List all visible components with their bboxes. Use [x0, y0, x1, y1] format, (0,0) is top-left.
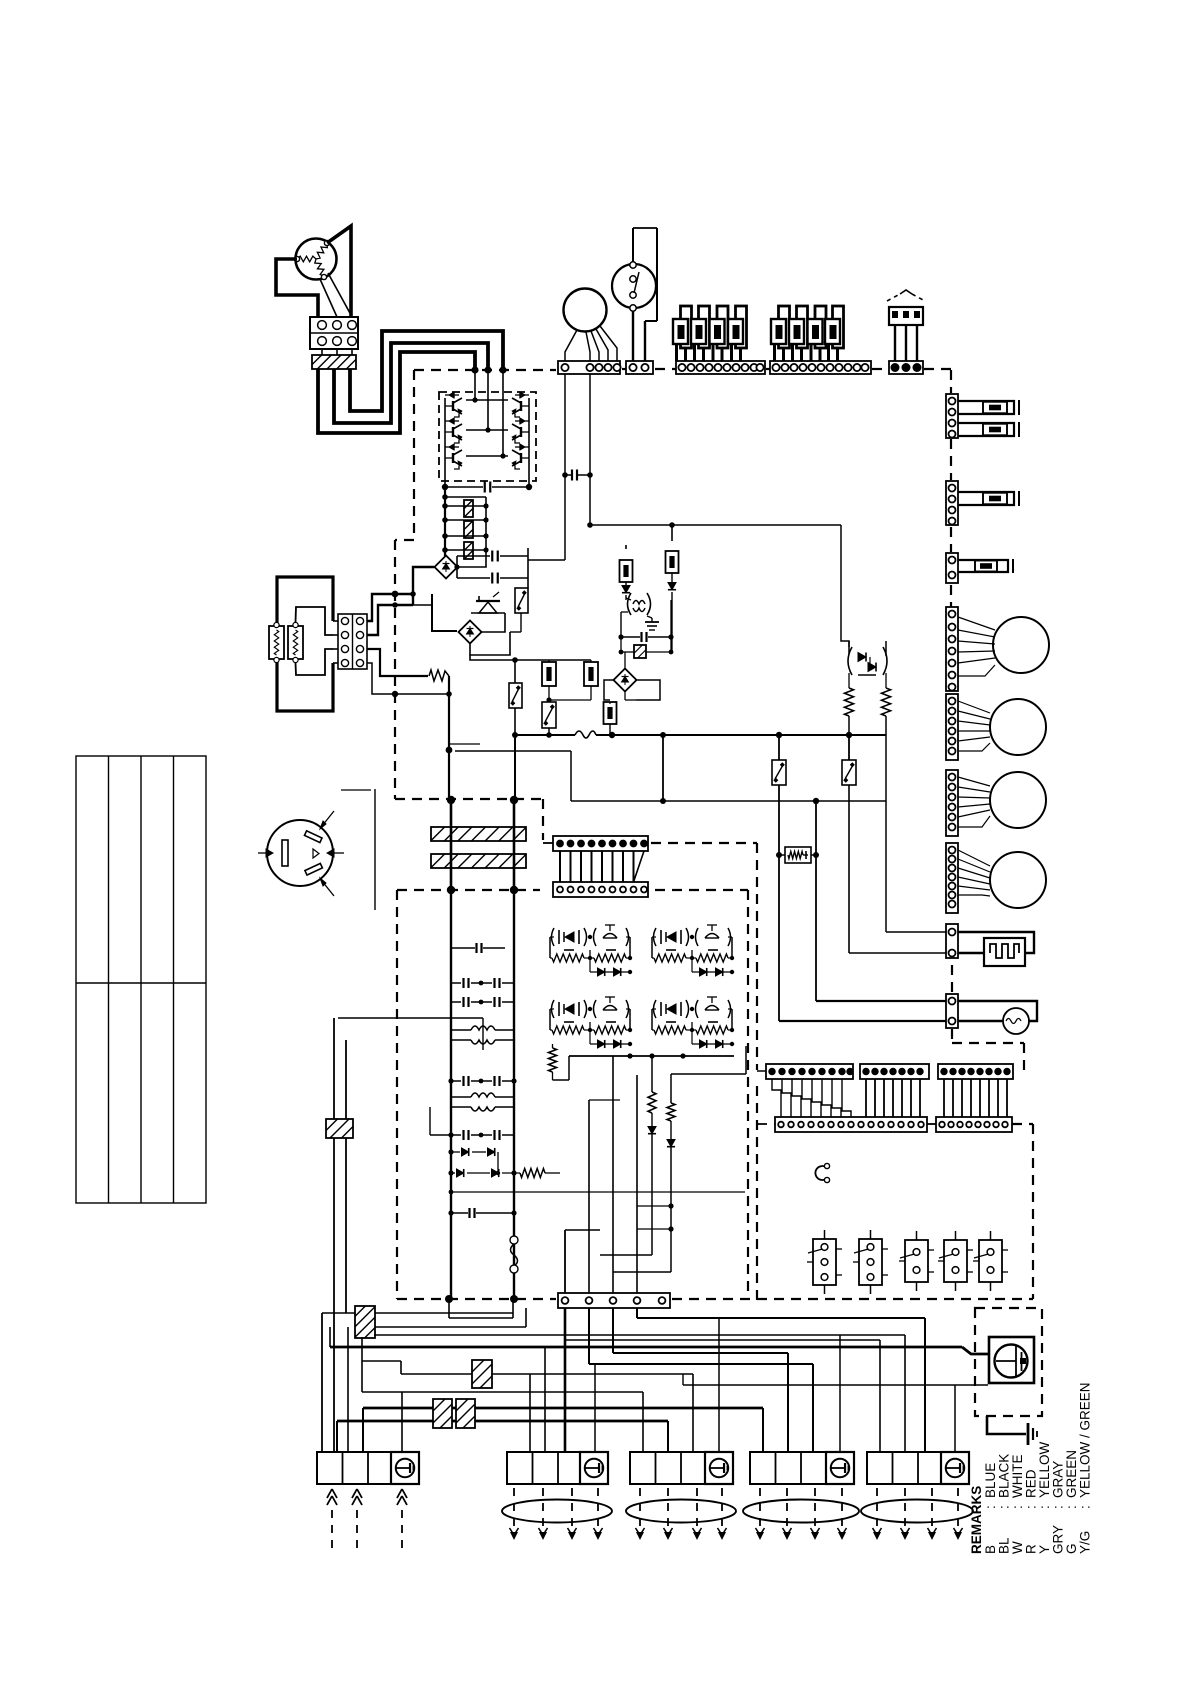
dashed harness corner to lower right column — [952, 1042, 1024, 1044]
CDI thick feed wires — [450, 800, 453, 890]
wire bus from coil connector to D1 — [367, 594, 413, 621]
relay RL5 — [848, 735, 850, 760]
transistor Q3 — [449, 444, 454, 450]
cap pair right of D1 — [457, 555, 490, 557]
fuse bank 1 (4 fuses) — [681, 306, 692, 348]
wire drop continues — [564, 475, 566, 560]
connector strip 2-pin (kill switch) — [626, 361, 653, 374]
main DC bus with break — [513, 734, 575, 736]
coil connector 8-pin — [338, 614, 367, 669]
headlight bulb hi — [958, 401, 1014, 414]
svg-text:Y/G: Y/G — [1078, 1531, 1093, 1554]
svg-text::: : — [1078, 1505, 1093, 1509]
dots on bottom dashed — [445, 1295, 453, 1303]
tail bulb — [958, 492, 1014, 505]
transistor Q2 — [449, 418, 454, 424]
weave line y1392 (to block3) — [362, 1391, 643, 1393]
weave line y1364 (to block4) — [589, 1363, 813, 1365]
CDI right chain 2 — [651, 1056, 653, 1092]
CDI circuit group 4 — [654, 1000, 657, 1018]
harness branch 4 arrows — [759, 1488, 761, 1532]
harness branch 2 arrows — [513, 1488, 515, 1532]
CDI caps row C — [451, 1134, 461, 1136]
capacitor between drops — [565, 474, 571, 476]
fuse bank 2 (4 fuses) — [779, 306, 790, 348]
hatched bundle bar 1 — [431, 827, 526, 841]
resistor pack hatched bars — [464, 500, 473, 517]
speedometer lamp — [958, 1001, 1037, 1021]
CDI output connector 5-pin — [558, 1293, 670, 1308]
cap row 1 — [621, 636, 640, 638]
battery ground symbol — [989, 1337, 1034, 1383]
wire from resistor pack to caps — [457, 560, 486, 567]
ignition coil unit outer loop — [277, 577, 333, 625]
ignition coil inner loop — [296, 607, 334, 635]
connector block 1 (front) — [317, 1452, 394, 1484]
ignition key symbol — [267, 820, 333, 886]
dashed harness boundary right vert — [950, 370, 952, 393]
fuse F4 — [671, 525, 673, 541]
vertical wires from CDI connector — [564, 1308, 567, 1452]
diode D2 diamond with loop — [432, 594, 457, 631]
CDI drop wires — [564, 1230, 566, 1293]
CDI top boundary dots — [447, 886, 455, 894]
CDI circuit group 3 — [552, 1000, 555, 1018]
CDI thin line — [451, 1191, 745, 1193]
wire bus 2 to D2 — [367, 605, 413, 635]
CDI right chain 1 — [745, 1046, 747, 1074]
gauge 4 — [990, 852, 1046, 908]
3-pin connector (top right) with dashed cover — [889, 307, 923, 325]
kill switch wiring — [632, 228, 634, 262]
transistor Q1 — [449, 392, 454, 398]
relay RL4 — [778, 735, 780, 760]
relay RL1 — [515, 588, 528, 613]
CDI vertical resistor — [549, 1048, 557, 1072]
switch unit 4 — [944, 1240, 967, 1282]
hatched wire-bundle (alternator harness) — [312, 355, 356, 369]
wire with inductor to lower area — [367, 649, 428, 676]
tachometer gauge — [993, 617, 1049, 673]
fuel sender connector — [946, 924, 958, 958]
staircase wires between rows — [772, 1079, 781, 1117]
up arrows under block1 — [327, 1489, 332, 1498]
phase wire drops into rectifier — [474, 370, 476, 400]
weave line y1335 (to block5) — [374, 1334, 905, 1336]
gauge 2 connector — [946, 694, 958, 760]
gnd square feeds — [594, 1364, 596, 1452]
dashed harness boundary left vert — [413, 370, 415, 540]
fuse F6 — [542, 662, 556, 686]
harness branch 5 arrows — [876, 1488, 878, 1532]
rectifier internal rails — [444, 398, 446, 481]
reference line near key — [374, 789, 376, 910]
long horizontal CDI left wire — [338, 1017, 483, 1019]
3-pin connector strip (filled) — [889, 361, 923, 374]
wire alternator phase leads — [320, 279, 337, 317]
dashed harness boundary lower jog — [395, 798, 543, 800]
bus y801 — [571, 800, 886, 802]
grounded capacitor — [651, 618, 653, 622]
main switch (circle with contacts) — [564, 289, 607, 332]
CDI circuit group 2 — [654, 928, 657, 946]
thyristor pair (flasher circuit) — [848, 647, 852, 675]
thick phase wire 3 — [350, 331, 503, 411]
weave line y1327 — [374, 1326, 526, 1328]
pickup coil transformer — [628, 593, 632, 615]
fuse F3 — [625, 545, 627, 549]
thick phase wire 2 — [334, 343, 488, 423]
thin wire pin4 — [367, 663, 449, 694]
dashed boundary right vert low — [756, 843, 758, 1070]
CDI cap row D — [451, 1212, 468, 1214]
CDI zener diodes — [451, 1151, 460, 1153]
thick wire alternator left leg — [276, 259, 318, 317]
fuse F5 — [604, 702, 617, 724]
switch unit 1 — [813, 1239, 836, 1285]
AC generator / alternator G1 — [296, 239, 337, 280]
hatched resistor — [620, 637, 622, 652]
thick wire alternator right leg — [327, 226, 351, 317]
hatch bundle A — [355, 1306, 375, 1338]
hatch bundles C and D — [433, 1399, 452, 1428]
resistor in box (flasher) — [779, 854, 785, 856]
transistor Q4 — [520, 392, 525, 398]
svg-text:REMARKS: REMARKS — [969, 1486, 984, 1554]
switch unit 5 — [979, 1240, 1002, 1282]
license bulb — [958, 560, 1008, 572]
hatched bundle bar 2 — [431, 854, 526, 868]
CDI left bus pair — [450, 890, 452, 1299]
9-pin connector lower row — [553, 882, 648, 897]
junction dots on dashed lower — [447, 796, 455, 804]
weave line y1318 (to block5) — [637, 1317, 925, 1319]
upper connector row strips (filled) — [766, 1064, 853, 1079]
wire from D2 to relays — [470, 655, 515, 660]
switch unit 2 — [859, 1239, 882, 1285]
headlight connector — [946, 394, 958, 438]
tail connector — [946, 481, 958, 525]
transistor Q5 — [520, 418, 525, 424]
gauge 3 connector — [946, 770, 958, 836]
dashed boundary mid segment — [543, 842, 553, 844]
wire y751 — [455, 750, 571, 752]
wire x886 down to fuel sender — [885, 735, 887, 932]
junction dots on harness boundary — [471, 366, 478, 373]
9-pin connector link wires — [559, 851, 561, 882]
gauge 4 connector — [946, 843, 958, 913]
connector block 6-pin (alternator) — [310, 317, 358, 349]
connector block 5 — [867, 1452, 944, 1484]
svg-text:YELLOW / GREEN: YELLOW / GREEN — [1078, 1382, 1093, 1498]
lower connector row strips (open) — [775, 1117, 927, 1132]
resistors under pair — [845, 688, 854, 716]
weave line y1353 (to block4) — [613, 1352, 788, 1354]
fuel sender unit — [958, 932, 1034, 953]
tachometer connector — [946, 607, 958, 691]
CDI dashed box — [397, 889, 540, 891]
weave line y1408 thick — [363, 1407, 763, 1410]
weave line y1340 (to block5) — [566, 1339, 880, 1341]
thick phase wire 1 — [318, 352, 475, 433]
relay RL3 — [542, 702, 556, 728]
dashed harness boundary top — [414, 369, 556, 371]
CDI circuit group 1 — [552, 928, 555, 946]
weave line y1313 — [322, 1312, 513, 1314]
long wire to tachometer circuit — [590, 524, 841, 526]
transistor Q6 — [520, 444, 525, 450]
harness branch 3 arrows — [639, 1488, 641, 1532]
connector block 3 — [630, 1452, 707, 1484]
switch unit 3 — [905, 1240, 928, 1282]
ground wire from battery box — [987, 1416, 1026, 1434]
battery dashed box — [975, 1308, 1042, 1416]
CDI contact breaker — [510, 1236, 518, 1244]
license connector — [946, 553, 958, 583]
regulator rectifier dashed box — [439, 392, 536, 481]
fuse F7 — [584, 662, 598, 686]
connector block 2 — [507, 1452, 584, 1484]
connector strip under main switch — [558, 361, 620, 374]
weave line y1374 with hatch B — [401, 1373, 693, 1375]
clutch cable symbol — [815, 1166, 826, 1180]
thin wire to battery box — [683, 1384, 988, 1386]
relay RL2 — [509, 683, 522, 708]
capacitor under rectifier — [445, 486, 483, 488]
gauge 2 (speedometer) — [990, 699, 1046, 755]
wire color table — [76, 756, 206, 1203]
CDI caps row B — [451, 1080, 461, 1082]
gauge 3 — [990, 772, 1046, 828]
kill switch circle — [612, 264, 656, 308]
left bus rail of regulator — [444, 487, 446, 556]
CDI transformer 2 — [471, 1093, 495, 1097]
headlight bulb lo — [958, 423, 1014, 436]
connector block 4 — [750, 1452, 827, 1484]
rectifier diode D1 (diamond) — [435, 556, 458, 579]
ignition coil primary boxes — [269, 626, 284, 659]
CDI caps row A — [451, 947, 475, 949]
9-pin connector upper row — [553, 836, 648, 851]
SCR thyristor — [476, 600, 500, 602]
weave line y1421 thick — [337, 1420, 668, 1423]
diode D3 diamond — [624, 652, 626, 668]
left chain via hatch A — [361, 1337, 363, 1392]
wire drops from main switch strip — [564, 374, 566, 475]
block2 feeds — [529, 1374, 531, 1452]
handlebar switch dashed box — [757, 1123, 775, 1125]
junction dots lower left — [446, 747, 453, 754]
CDI lower bus — [569, 1055, 734, 1057]
dashed harness bottom — [397, 1298, 556, 1300]
wire x816 down — [815, 801, 817, 1001]
CDI transformer 1 — [471, 1026, 495, 1030]
speedometer lamp connector — [946, 994, 958, 1028]
left coil secondary wires — [333, 1018, 335, 1119]
main thick bus y1347 to battery — [330, 1346, 962, 1349]
